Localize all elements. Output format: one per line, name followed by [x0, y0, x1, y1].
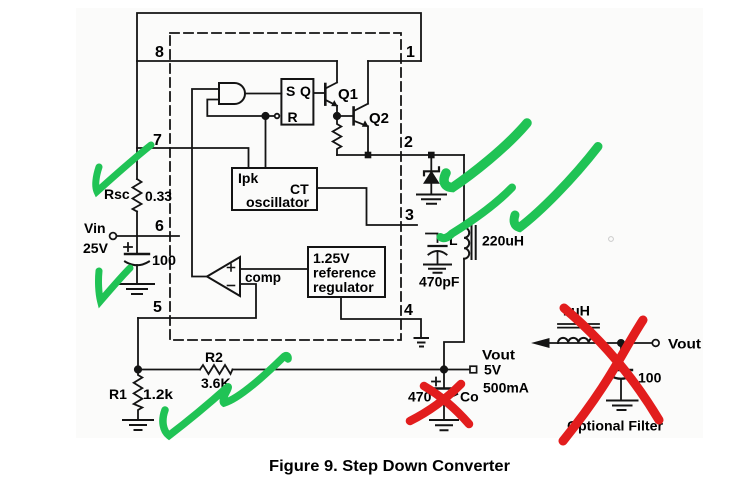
- svg-text:8: 8: [155, 44, 164, 61]
- svg-text:4: 4: [404, 302, 413, 319]
- svg-text:Q1: Q1: [338, 86, 358, 103]
- capacitor Co plates: [443, 370, 445, 389]
- ground: R1: [123, 420, 153, 430]
- svg-text:3: 3: [405, 207, 414, 224]
- svg-text:Rsc: Rsc: [104, 186, 130, 202]
- resistor R Q1 emitter pulldown: [333, 116, 342, 155]
- wire: latch Q to Q1 base: [313, 92, 325, 94]
- latch R inverting bubble: [275, 114, 280, 119]
- AND gate U2: [219, 83, 245, 104]
- wire: Vcc top rail (pin8/pin1 hat): [137, 13, 421, 61]
- resistor Rsc zigzag: [133, 179, 142, 212]
- wire: pin 1 to Q2 collector: [368, 60, 421, 62]
- annotation: green check 4 (inductor): [441, 188, 513, 239]
- wire: pin 8 to Q1 collector: [137, 60, 337, 62]
- svg-text:Figure 9. Step Down Converter: Figure 9. Step Down Converter: [269, 458, 510, 475]
- capacitor C2 470pF lead bracket: [426, 234, 438, 243]
- capacitor C3 100 plates: [620, 343, 622, 370]
- oscillator U4 box: [232, 168, 317, 210]
- node: R1/R2 divider: [135, 366, 141, 372]
- wire: CT to pin 3: [317, 188, 417, 225]
- svg-text:470pF: 470pF: [419, 274, 460, 290]
- svg-text:Co: Co: [460, 389, 479, 405]
- svg-text:Ipk: Ipk: [238, 170, 258, 186]
- svg-text:1.2k: 1.2k: [143, 386, 173, 402]
- svg-text:Vout: Vout: [482, 347, 515, 363]
- wire: pin 2 switch rail: [337, 154, 464, 156]
- ground: C1: [120, 284, 154, 294]
- node: output feedback junction: [441, 366, 447, 372]
- svg-text:Vin: Vin: [84, 220, 106, 236]
- IC U1 boundary (dashed): [170, 33, 401, 340]
- inductor L1 220uH: [463, 155, 465, 228]
- resistor R1 zigzag: [134, 370, 143, 420]
- svg-text:comp: comp: [245, 269, 281, 285]
- svg-text:6: 6: [155, 218, 164, 235]
- svg-text:1: 1: [406, 44, 415, 61]
- wire: comp output to AND input 1: [192, 89, 219, 277]
- optional filter wire with arrow: [540, 342, 652, 344]
- capacitor C2 plates: [429, 245, 447, 247]
- wire: oscillator output up: [265, 116, 267, 168]
- annotation: red X over optional filter: [564, 308, 659, 420]
- wire: left input rail: [136, 61, 138, 179]
- wire: feedback / R2 rail: [138, 369, 444, 371]
- wire: Vout terminal stub: [444, 369, 470, 371]
- diode D1 cathode (schottky bar): [430, 155, 432, 172]
- artifact dot: [609, 237, 614, 242]
- node: filter output junction: [618, 340, 624, 346]
- node: oscillator output junction: [262, 113, 268, 119]
- svg-text:Vout: Vout: [668, 336, 701, 352]
- wire: reference to pin 4: [341, 297, 421, 338]
- capacitor C1 100uF plates: [125, 253, 149, 255]
- wire: rail Rsc to Vin node: [136, 212, 138, 237]
- svg-text:regulator: regulator: [313, 279, 374, 295]
- ground: C3: [607, 401, 638, 411]
- transistor Q2: [352, 108, 355, 125]
- comparator U5 triangle: [207, 257, 240, 296]
- inductor L2 1uH core: [558, 324, 599, 328]
- svg-text:oscillator: oscillator: [246, 194, 310, 210]
- node: Q1 emitter / Q2 base: [334, 113, 340, 119]
- wire: pin 7 into Ipk sense: [137, 148, 249, 168]
- ground: diode D1: [417, 195, 446, 204]
- annotation: green check 5: [514, 147, 598, 228]
- wire: Vin node down to C1: [136, 236, 138, 254]
- inductor L2 1uH coil: [558, 338, 599, 343]
- svg-text:100: 100: [638, 370, 662, 386]
- annotation: green check 6 (R1/R2): [163, 356, 288, 436]
- svg-text:7: 7: [153, 132, 162, 149]
- annotation: red X over Co: [424, 386, 469, 424]
- svg-text:5V: 5V: [484, 362, 502, 378]
- node: Q2 emitter junction (square): [365, 152, 372, 159]
- svg-text:5: 5: [153, 299, 162, 316]
- svg-text:R1: R1: [109, 386, 127, 402]
- annotation: green check 1 (Rsc): [96, 145, 151, 192]
- annotation: green check 2 (C1): [99, 268, 131, 301]
- svg-text:R2: R2: [205, 349, 223, 365]
- terminal: filtered Vout circle: [652, 340, 659, 347]
- resistor R2 zigzag: [200, 365, 233, 374]
- ground: pin 4: [415, 338, 429, 347]
- wire: pin 6 from Vin terminal: [117, 235, 180, 237]
- svg-text:S: S: [286, 83, 295, 99]
- svg-text:220uH: 220uH: [482, 233, 524, 249]
- wire: pin5 down to feedback node: [137, 318, 139, 370]
- pin number labels: [153, 44, 415, 319]
- svg-text:100: 100: [152, 252, 176, 268]
- diode D1 anode triangle: [424, 172, 438, 183]
- wire: pin 5 comparator inverting input: [138, 284, 256, 318]
- svg-text:Q: Q: [300, 83, 311, 99]
- svg-text:2: 2: [404, 134, 413, 151]
- wire: comparator + input to reference: [240, 268, 308, 270]
- wire: Q2 base: [337, 115, 354, 117]
- latch U3 box: [281, 79, 313, 125]
- reference regulator U6 box: [308, 247, 385, 297]
- wire: oscillator to AND input 2 and latch R: [207, 100, 274, 117]
- svg-text:25V: 25V: [83, 240, 109, 256]
- terminal: Vin input circle: [110, 233, 117, 240]
- capacitor C1 plus sign: [124, 243, 132, 251]
- wire: C1 to ground: [136, 265, 138, 284]
- ground: Co: [430, 420, 458, 430]
- wire: AND output to latch S: [245, 93, 281, 95]
- component text labels: [83, 83, 701, 434]
- terminal: Vout 5V square: [470, 366, 477, 373]
- annotation: green check 3 (diode): [444, 123, 527, 188]
- svg-text:0.33: 0.33: [145, 188, 172, 204]
- svg-text:R: R: [288, 109, 298, 125]
- node: catch diode junction (square): [428, 152, 435, 159]
- svg-text:Q2: Q2: [369, 110, 389, 127]
- svg-text:500mA: 500mA: [483, 380, 529, 396]
- transistor Q1: [324, 84, 327, 105]
- ground: C2: [424, 265, 451, 273]
